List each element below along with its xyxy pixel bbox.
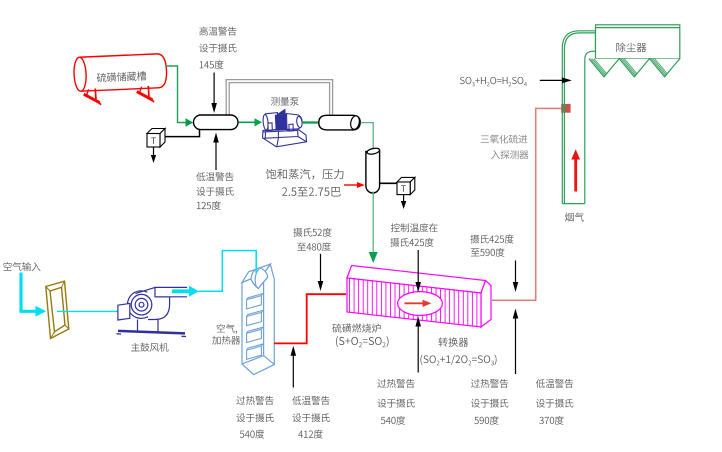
- pump label 测量泵: [271, 97, 299, 106]
- riser cylinder: [366, 151, 380, 194]
- dust collector hoppers: [589, 59, 619, 77]
- red arrow in converter: [405, 302, 424, 304]
- sulfur storage tank 硫磺储藏槽: [73, 53, 167, 91]
- label overheat warn c4 line2: [471, 399, 508, 408]
- label overheat warn c1 line2: [236, 413, 273, 422]
- arrow below T1: [153, 148, 155, 157]
- heater tube windows: [247, 294, 263, 360]
- label air input 空气输入: [3, 262, 40, 271]
- red line heater to furnace: [274, 294, 346, 343]
- converter ellipse: [398, 292, 443, 316]
- green line to riser: [361, 123, 374, 150]
- arrow high-temp to vessel: [213, 73, 215, 105]
- label 425-590 line1: [470, 235, 513, 244]
- label overheat warn c1 line3: [240, 430, 264, 439]
- dust collector label 除尘器: [616, 43, 646, 53]
- dust collector 除尘器: [596, 25, 680, 59]
- salmon line converter to detector: [491, 108, 562, 300]
- label low temp warn c2 line1: [292, 396, 329, 405]
- arrow warn c2 up: [292, 355, 294, 388]
- label low temp warn c2 line2: [292, 413, 329, 422]
- heater label line1: [217, 324, 237, 334]
- cyan line to air heater: [199, 251, 257, 292]
- label overheat warn c4 line3: [474, 416, 498, 425]
- label overheat warn c1 line1: [236, 396, 273, 405]
- main blower 主鼓风机: [117, 287, 188, 336]
- label high temp warning line3: [200, 60, 224, 69]
- T2 letter: [401, 185, 406, 191]
- label SO3 to detector line1: [481, 135, 528, 144]
- black arrow into stack: [540, 79, 562, 81]
- tank label 硫磺储藏槽: [97, 71, 147, 83]
- air heater 空气加热器: [242, 264, 274, 374]
- flue gas pipe: [562, 31, 595, 204]
- connector to temperature box: [164, 130, 200, 137]
- green line tank to vessel: [166, 66, 186, 123]
- cyan line filter to blower: [57, 310, 122, 312]
- furnace hatching: [350, 262, 477, 330]
- label low temp warn c5 line3: [539, 416, 563, 425]
- cyan air inlet arrow: [21, 273, 36, 312]
- label saturated steam line1: [266, 169, 344, 180]
- converter formula: [420, 355, 496, 366]
- green arrow vessel to pump: [239, 121, 256, 123]
- gray pipe loop: [226, 80, 332, 115]
- label low temp warn c5 line1: [536, 379, 573, 388]
- arrow low-temp to vessel: [215, 142, 217, 171]
- tank legs: [84, 86, 154, 105]
- label 52-480 line1: [293, 228, 331, 237]
- furnace label 硫磺燃烧炉: [332, 323, 380, 332]
- label control temperature line1: [391, 223, 438, 232]
- cyan line into dome: [255, 264, 257, 273]
- label SO3 to detector line2: [491, 150, 528, 159]
- temperature sensor box T1: [147, 129, 165, 148]
- arrow 52-480 down: [320, 254, 322, 282]
- label overheat warn c3 line1: [377, 379, 414, 388]
- arrow 425-590 up: [515, 318, 517, 375]
- arrow control temp down to ellipse: [417, 250, 419, 283]
- flue gas red arrow: [574, 159, 577, 192]
- label 425-590 line2: [471, 248, 505, 257]
- temperature sensor box T2: [397, 177, 415, 194]
- converter label 转换器: [438, 337, 468, 346]
- red arrow steam to riser: [344, 184, 358, 186]
- melter vessel (capsule): [194, 115, 239, 130]
- furnace formula: [336, 336, 389, 347]
- arrow below T2: [403, 195, 405, 202]
- cyan blower outlet arrow: [172, 289, 189, 293]
- detector junction square: [561, 104, 570, 113]
- label low temp warn c2 line3: [298, 430, 323, 439]
- label high temp warning line1: [199, 27, 236, 36]
- label control temperature line2: [390, 238, 433, 247]
- heater label line2: [212, 336, 240, 345]
- connector riser to T2: [380, 182, 397, 184]
- discharge cylinder: [319, 115, 354, 130]
- arrow 425-590 down: [515, 261, 517, 284]
- label low temp warning line3: [197, 201, 221, 210]
- label low temp warning line1: [196, 172, 233, 181]
- label SO3+H2O formula: [460, 77, 527, 87]
- label low temp warning line2: [196, 187, 233, 196]
- label high temp warning line2: [199, 43, 236, 52]
- metering pump 测量泵: [263, 109, 307, 147]
- green line riser to furnace: [372, 192, 374, 253]
- flue gas label 烟气: [565, 212, 584, 221]
- label 52-480 line2: [297, 242, 331, 251]
- air filter frame: [46, 281, 69, 338]
- label low temp warn c5 line2: [536, 399, 573, 408]
- label overheat warn c3 line3: [381, 416, 405, 425]
- T1 letter: [151, 138, 156, 144]
- blower label 主鼓风机: [131, 343, 168, 352]
- label overheat warn c3 line2: [377, 399, 414, 408]
- arrow up to ellipse: [417, 326, 419, 373]
- green line pump to cylinder: [302, 121, 319, 123]
- label saturated steam line2: [282, 187, 341, 196]
- label overheat warn c4 line1: [471, 379, 508, 388]
